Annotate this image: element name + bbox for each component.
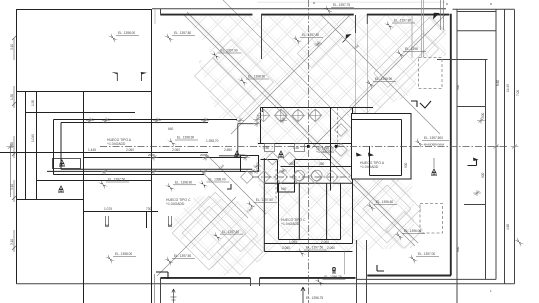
svg-text:MANIOBRA NMA: MANIOBRA NMA: [424, 143, 444, 147]
svg-text:EL. 1398.00: EL. 1398.00: [115, 252, 132, 256]
svg-text:a: a: [313, 1, 315, 5]
svg-text:730: 730: [146, 207, 152, 211]
svg-text:860: 860: [456, 246, 460, 252]
svg-text:EL. 1398.90: EL. 1398.90: [375, 77, 392, 81]
svg-text:14.45: 14.45: [506, 84, 510, 92]
svg-text:EL. 1397.90: EL. 1397.90: [221, 49, 238, 53]
svg-text:+1.04OADD: +1.04OADD: [166, 202, 185, 206]
svg-text:EL. 1398: EL. 1398: [405, 47, 418, 51]
svg-text:EL. 1397.50: EL. 1397.50: [256, 198, 273, 202]
svg-text:EL. 1397.80: EL. 1397.80: [302, 33, 319, 37]
svg-text:a: a: [490, 2, 492, 6]
svg-text:1.50: 1.50: [10, 94, 14, 100]
svg-text:1.50: 1.50: [263, 146, 269, 150]
svg-text:EL. 1397.50: EL. 1397.50: [222, 230, 239, 234]
svg-text:EL. 1397.80: EL. 1397.80: [174, 31, 191, 35]
svg-text:900: 900: [481, 172, 485, 178]
svg-text:1.398,70: 1.398,70: [206, 139, 219, 143]
svg-text:+1.04OADD: +1.04OADD: [360, 165, 379, 169]
svg-text:900: 900: [481, 112, 485, 118]
svg-text:EL. 1398.90: EL. 1398.90: [175, 181, 192, 185]
svg-text:350: 350: [289, 162, 295, 166]
svg-text:8.60: 8.60: [496, 80, 500, 86]
svg-text:EL. 1397.50: EL. 1397.50: [108, 178, 125, 182]
svg-text:EL. 1396.75: EL. 1396.75: [324, 275, 341, 279]
svg-text:a: a: [446, 2, 448, 6]
svg-text:EL. 1397.500: EL. 1397.500: [424, 136, 443, 140]
svg-text:2.650: 2.650: [224, 148, 232, 152]
svg-text:+1.04OADD: +1.04OADD: [107, 142, 126, 146]
svg-text:350: 350: [319, 162, 325, 166]
svg-text:2.060: 2.060: [327, 246, 335, 250]
svg-text:1.075: 1.075: [104, 207, 112, 211]
svg-text:900: 900: [404, 162, 408, 168]
svg-text:2650: 2650: [238, 153, 245, 157]
svg-text:EL. 1397.75: EL. 1397.75: [333, 3, 350, 7]
svg-text:EL. 1398.00: EL. 1398.00: [118, 31, 135, 35]
svg-text:3.10: 3.10: [10, 184, 14, 190]
svg-text:940: 940: [281, 187, 287, 191]
svg-text:EL. 1397.00: EL. 1397.00: [418, 252, 435, 256]
svg-text:EL. 1397.50: EL. 1397.50: [306, 246, 323, 250]
svg-text:1.445: 1.445: [88, 148, 96, 152]
svg-text:1.040: 1.040: [31, 134, 35, 142]
svg-text:EL. 1398.90: EL. 1398.90: [248, 75, 265, 79]
svg-text:3.10: 3.10: [10, 239, 14, 245]
svg-text:2.060: 2.060: [172, 148, 180, 152]
svg-text:EL. 1398.90: EL. 1398.90: [177, 136, 194, 140]
svg-text:7.00: 7.00: [516, 90, 520, 96]
svg-text:EL. 1396.00: EL. 1396.00: [404, 229, 421, 233]
svg-text:+1.04OADD: +1.04OADD: [281, 222, 300, 226]
svg-text:1.50: 1.50: [31, 100, 35, 106]
svg-text:EL. 1396.60: EL. 1396.60: [376, 200, 393, 204]
svg-text:2.060: 2.060: [126, 148, 134, 152]
svg-text:4.60: 4.60: [506, 224, 510, 230]
svg-text:1.50: 1.50: [293, 146, 299, 150]
svg-text:1.090: 1.090: [289, 240, 297, 244]
svg-text:EL. 1397.50: EL. 1397.50: [174, 254, 191, 258]
svg-text:2.060: 2.060: [282, 246, 290, 250]
svg-text:+1.068ODD: +1.068ODD: [316, 150, 335, 154]
svg-text:EL. 1397.80: EL. 1397.80: [394, 19, 411, 23]
svg-text:EL. 1396.75: EL. 1396.75: [306, 296, 323, 300]
svg-text:360: 360: [456, 84, 460, 90]
svg-text:3.10: 3.10: [10, 44, 14, 50]
svg-text:640: 640: [168, 127, 174, 131]
svg-text:EL. 1398.00: EL. 1398.00: [208, 178, 225, 182]
svg-text:2.060: 2.060: [321, 240, 329, 244]
